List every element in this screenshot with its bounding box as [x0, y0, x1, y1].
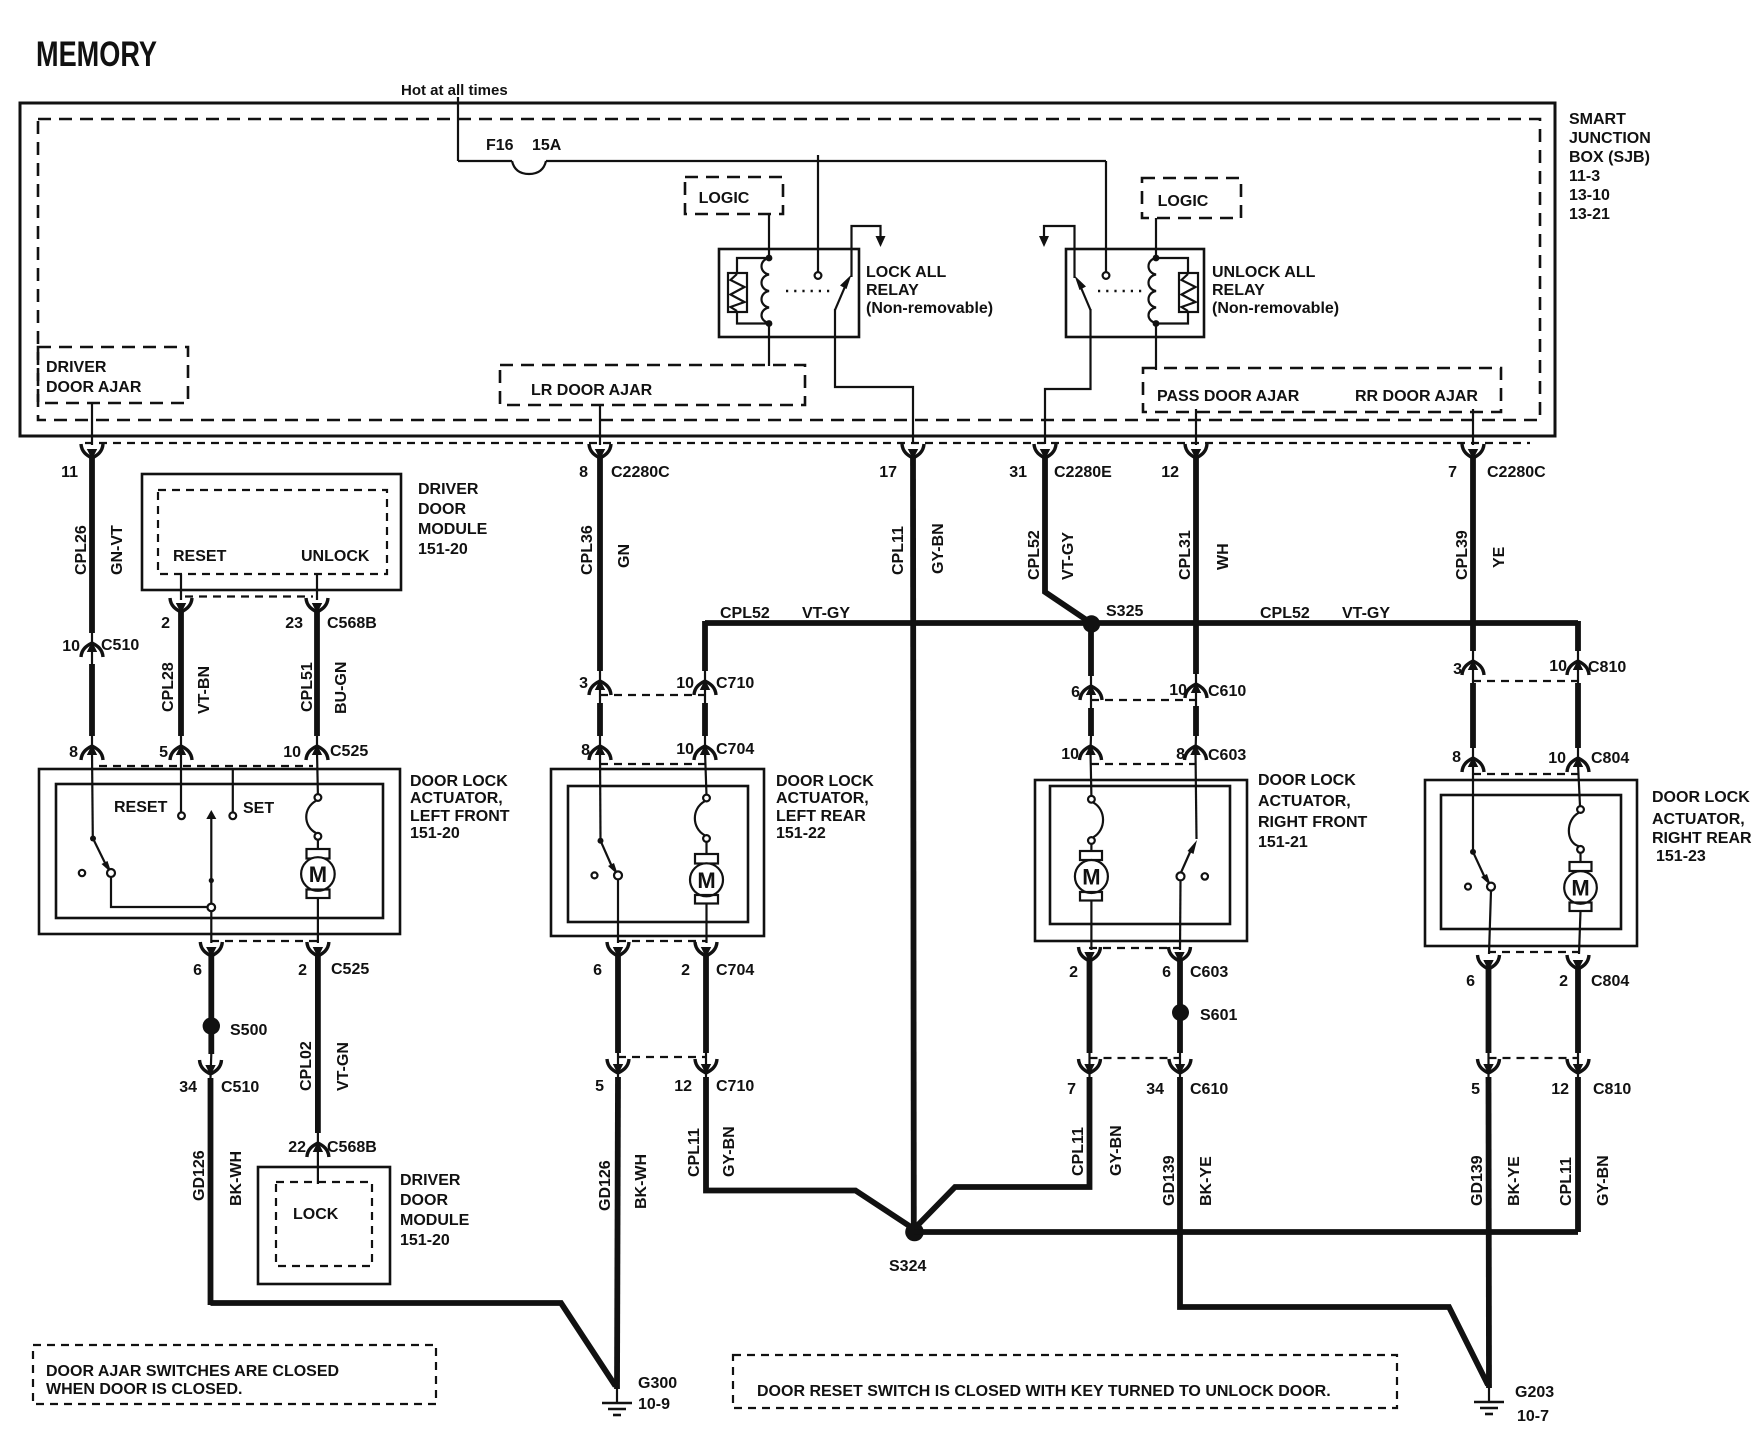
svg-text:6: 6 — [1071, 684, 1080, 701]
wire C610 to C603 left — [1088, 708, 1094, 752]
connector C810 pin 12 — [1551, 1059, 1631, 1098]
svg-text:G300: G300 — [638, 1375, 677, 1392]
svg-text:BOX (SJB): BOX (SJB) — [1569, 149, 1650, 166]
UNLOCK relay switch blade — [1075, 276, 1091, 311]
svg-text:CPL11: CPL11 — [1070, 1127, 1087, 1176]
title MEMORY — [36, 35, 157, 74]
label UNLOCK ALL RELAY (Non-removable) — [1212, 264, 1339, 317]
PASS and RR DOOR AJAR box — [1143, 368, 1501, 412]
svg-text:UNLOCK: UNLOCK — [301, 548, 370, 565]
connector arrow pin 11 — [61, 444, 103, 481]
svg-text:SET: SET — [243, 800, 274, 817]
svg-text:C810: C810 — [1593, 1081, 1631, 1098]
wire GD139 BK-YE (RR) to G203 — [1469, 1077, 1523, 1388]
connector C525 pin 5 — [159, 744, 192, 761]
wire C610 to C603 right — [1193, 706, 1199, 752]
wire LOCK relay coil to LR DOOR AJAR — [768, 324, 770, 367]
svg-text:C610: C610 — [1208, 683, 1246, 700]
connector C510 pin 10 — [62, 637, 139, 657]
wire LR switch output — [617, 879, 619, 943]
svg-text:7: 7 — [1448, 464, 1457, 481]
connector C610 pin 7 — [1067, 1059, 1100, 1098]
wire fuse bus to UNLOCK relay common — [1105, 161, 1107, 272]
svg-text:GD126: GD126 — [191, 1150, 208, 1201]
svg-text:C610: C610 — [1190, 1081, 1228, 1098]
wire pin 10 to LR motor — [705, 752, 707, 795]
terminal RESET contact — [178, 812, 185, 819]
ground G203 — [1474, 1384, 1554, 1425]
wire RF pin 2 to C610 pin 7 — [1087, 961, 1093, 1077]
connector C810 pin 3 — [1453, 660, 1484, 679]
wire LR pin 2 to C710 pin 12 — [703, 956, 709, 1077]
svg-text:C603: C603 — [1190, 964, 1228, 981]
connector arrow pin 31 C2280E — [1009, 444, 1112, 481]
svg-text:GD139: GD139 — [1161, 1155, 1178, 1206]
connector C610 lower dashed — [1090, 1057, 1181, 1059]
svg-text:DRIVER: DRIVER — [400, 1172, 461, 1189]
connector C710 pin 5 — [595, 1059, 629, 1095]
connector arrow pin 12 — [1161, 444, 1207, 481]
wire RR pin 2 to C810 pin 12 — [1575, 969, 1581, 1077]
connector arrow LR pin 2 C704 — [681, 942, 754, 979]
svg-text:BU-GN: BU-GN — [333, 662, 350, 714]
connector arrow pin 8 C2280C — [579, 444, 670, 481]
svg-text:RIGHT REAR: RIGHT REAR — [1652, 830, 1752, 847]
connector C510 pin 34 — [179, 1060, 259, 1096]
connector arrow RR pin 2 C804 — [1559, 955, 1629, 990]
svg-text:VT-GY: VT-GY — [802, 605, 850, 622]
connector C525 pin 8 — [69, 744, 103, 761]
svg-text:ACTUATOR,: ACTUATOR, — [1652, 811, 1745, 828]
wire CPL26 GN-VT pin 11 to C510 — [73, 456, 126, 664]
LOGIC box (unlock side) — [1142, 178, 1241, 218]
wire pin 10 to RR motor — [1578, 764, 1580, 806]
motor M RF — [1075, 796, 1108, 950]
svg-text:DOOR LOCK: DOOR LOCK — [1258, 772, 1356, 789]
LF plunger — [206, 810, 216, 911]
svg-text:LOGIC: LOGIC — [1158, 193, 1209, 210]
connector arrow LF pin 2 C525 — [298, 942, 369, 979]
LOCK relay switch blade — [835, 275, 852, 311]
label Hot at all times — [401, 82, 508, 99]
svg-text:SMART: SMART — [1569, 111, 1626, 128]
wire CPL02 VT-GN motor to LOCK — [298, 956, 352, 1148]
driver door module U1 box — [142, 474, 401, 590]
fuse F16 15A — [458, 137, 1106, 174]
svg-text:(Non-removable): (Non-removable) — [866, 300, 993, 317]
svg-text:(Non-removable): (Non-removable) — [1212, 300, 1339, 317]
svg-text:LOCK ALL: LOCK ALL — [866, 264, 947, 281]
connector arrow RR pin 6 — [1466, 955, 1499, 990]
door lock actuator left front box — [39, 769, 400, 934]
svg-text:RR DOOR AJAR: RR DOOR AJAR — [1355, 388, 1478, 405]
svg-text:10: 10 — [1548, 750, 1566, 767]
svg-text:JUNCTION: JUNCTION — [1569, 130, 1651, 147]
wire bus corner to C810 pin 10 — [1575, 621, 1581, 683]
LOCK relay linkage — [786, 290, 831, 293]
svg-text:YE: YE — [1491, 546, 1508, 568]
svg-text:2: 2 — [298, 962, 307, 979]
svg-text:LR DOOR AJAR: LR DOOR AJAR — [531, 382, 653, 399]
svg-text:BK-WH: BK-WH — [228, 1151, 245, 1206]
wire CPL11 GY-BN (RF) to S324 — [914, 1077, 1125, 1229]
splice S325 — [1083, 603, 1144, 633]
wire pin 8 stub from LR DOOR AJAR — [599, 405, 601, 445]
motor M LR — [690, 795, 723, 943]
wire S324 ground bus — [914, 1229, 1578, 1235]
wire pin 8 into RF switch — [1196, 752, 1197, 839]
svg-text:RELAY: RELAY — [866, 282, 919, 299]
SJB inner dashed boundary — [38, 119, 1540, 420]
svg-text:151-23: 151-23 — [1656, 848, 1706, 865]
connector C710 boundary dashed — [600, 694, 705, 696]
terminal UNLOCK relay common contact — [1103, 272, 1110, 279]
svg-text:C810: C810 — [1588, 659, 1626, 676]
svg-text:151-20: 151-20 — [410, 825, 460, 842]
svg-text:12: 12 — [674, 1078, 692, 1095]
label DOOR LOCK ACTUATOR RIGHT REAR 151-23 — [1652, 789, 1752, 865]
wire LF pin 6 to S500 — [208, 956, 214, 1020]
svg-text:RELAY: RELAY — [1212, 282, 1265, 299]
svg-text:F16: F16 — [486, 137, 514, 154]
wire pin 31 CPL52 VT-GY to S325 — [1026, 456, 1088, 621]
svg-text:10-7: 10-7 — [1517, 1408, 1549, 1425]
LOCK relay suppression resistor — [728, 258, 766, 324]
wire S500 to C510 pin 34 — [208, 1032, 215, 1078]
connector C603 pin 10 — [1061, 745, 1101, 764]
LOCK relay coil — [762, 255, 773, 327]
svg-text:CPL02: CPL02 — [298, 1041, 315, 1091]
connector C568B boundary dashed — [185, 595, 313, 597]
svg-text:10: 10 — [676, 741, 694, 758]
svg-text:2: 2 — [1069, 964, 1078, 981]
connector C610 pin 6 — [1071, 684, 1102, 701]
svg-text:34: 34 — [1146, 1081, 1164, 1098]
connector C804 dashed lower — [1488, 951, 1578, 953]
wire CPL52 VT-GY bus — [705, 605, 1578, 623]
svg-text:DOOR AJAR: DOOR AJAR — [46, 379, 142, 396]
svg-text:CPL52: CPL52 — [720, 605, 770, 622]
wire GN-VT C510 to actuator pin 8 — [89, 664, 95, 752]
wire RF switch output — [1179, 880, 1182, 950]
relay K1 LOCK ALL RELAY box — [719, 249, 859, 337]
connector arrow pin 23 C568B — [285, 598, 377, 632]
svg-text:UNLOCK ALL: UNLOCK ALL — [1212, 264, 1316, 281]
svg-text:151-20: 151-20 — [418, 541, 468, 558]
driver door module LOCK box — [258, 1167, 390, 1284]
svg-text:DOOR LOCK: DOOR LOCK — [410, 773, 508, 790]
svg-text:MEMORY: MEMORY — [36, 35, 157, 74]
wire S601 to C610 pin 34 — [1177, 1017, 1183, 1077]
svg-text:VT-GY: VT-GY — [1060, 532, 1077, 580]
motor M RR — [1564, 806, 1597, 954]
svg-text:5: 5 — [1471, 1081, 1480, 1098]
svg-text:C510: C510 — [221, 1079, 259, 1096]
svg-text:ACTUATOR,: ACTUATOR, — [410, 790, 503, 807]
RF door lock switch — [1177, 840, 1209, 880]
svg-text:C603: C603 — [1208, 747, 1246, 764]
svg-text:6: 6 — [1162, 964, 1171, 981]
connector C804 pin 8 — [1452, 749, 1484, 772]
svg-text:DOOR: DOOR — [400, 1192, 448, 1209]
wire CPL36 GN pin 8 — [579, 456, 633, 703]
svg-text:DOOR LOCK: DOOR LOCK — [1652, 789, 1750, 806]
svg-text:M: M — [1082, 865, 1100, 890]
connector arrow LR pin 6 — [593, 942, 629, 979]
svg-text:C710: C710 — [716, 675, 754, 692]
connector C603 dashed lower — [1089, 947, 1180, 949]
connector C525 dashed boundary — [99, 765, 313, 767]
svg-text:C568B: C568B — [327, 615, 377, 632]
ground G300 — [602, 1375, 677, 1415]
wire CPL28 VT-BN — [160, 611, 213, 752]
wire fuse bus to LOCK relay common — [817, 155, 819, 272]
wire pin 8 into LF switch — [91, 752, 94, 838]
svg-text:ACTUATOR,: ACTUATOR, — [1258, 793, 1351, 810]
relay K2 UNLOCK ALL RELAY box — [1066, 249, 1204, 337]
wire LF switch output to plunger node — [111, 877, 208, 907]
svg-text:BK-YE: BK-YE — [1506, 1156, 1523, 1206]
svg-text:34: 34 — [179, 1079, 197, 1096]
wire into LOCK module — [317, 1148, 319, 1184]
connector arrow pin 7 C2280C — [1448, 444, 1546, 481]
svg-text:MODULE: MODULE — [418, 521, 488, 538]
svg-text:C710: C710 — [716, 1078, 754, 1095]
wire LOCK relay blade to pin 17 — [835, 309, 913, 444]
wire pin 7 stub from RR DOOR AJAR — [1472, 409, 1474, 445]
svg-text:10: 10 — [676, 675, 694, 692]
smart junction box SJB outer box — [20, 103, 1555, 436]
svg-text:6: 6 — [1466, 973, 1475, 990]
wire pin 8 into RR switch — [1472, 764, 1474, 851]
wire pin 12 stub from PASS DOOR AJAR — [1195, 409, 1197, 445]
wire pin 10 to LF motor — [316, 752, 319, 794]
connector C804 pin 10 — [1548, 750, 1629, 772]
svg-text:LEFT FRONT: LEFT FRONT — [410, 808, 510, 825]
wire module UNLOCK output — [316, 574, 318, 600]
connector C610 boundary dashed — [1091, 699, 1196, 701]
connector C810 boundary dashed — [1473, 680, 1578, 682]
svg-text:DRIVER: DRIVER — [46, 359, 107, 376]
svg-text:WHEN DOOR IS CLOSED.: WHEN DOOR IS CLOSED. — [46, 1381, 242, 1398]
RR door lock switch — [1465, 849, 1495, 891]
svg-text:GY-BN: GY-BN — [721, 1126, 738, 1177]
svg-text:C2280C: C2280C — [611, 464, 670, 481]
label DRIVER DOOR MODULE 151-20 (lock) — [400, 1172, 470, 1249]
svg-text:8: 8 — [579, 464, 588, 481]
wire LF common down and out — [210, 911, 212, 943]
note door ajar switches — [33, 1345, 436, 1404]
svg-text:DOOR RESET SWITCH IS CLOSED WI: DOOR RESET SWITCH IS CLOSED WITH KEY TUR… — [757, 1383, 1331, 1400]
wire UNLOCK relay blade to pin 31 — [1045, 309, 1091, 444]
svg-text:VT-GN: VT-GN — [335, 1042, 352, 1091]
svg-text:GD126: GD126 — [597, 1160, 614, 1211]
wire LR pin 6 to C710 pin 5 — [615, 956, 621, 1077]
wire pin 11 stub from DRIVER DOOR AJAR — [91, 403, 93, 445]
svg-text:WH: WH — [1215, 543, 1232, 570]
svg-text:10-9: 10-9 — [638, 1396, 670, 1413]
driver door module inner dashed — [158, 490, 387, 574]
LOCK relay output hook with arrow — [852, 226, 886, 277]
connector C610 pin 10 — [1169, 682, 1246, 700]
svg-text:11-3: 11-3 — [1569, 168, 1600, 185]
svg-text:17: 17 — [879, 464, 897, 481]
connector C710 lower dashed — [618, 1056, 706, 1058]
LF labels RESET SET — [114, 799, 274, 817]
LR door lock switch — [592, 838, 623, 880]
svg-text:2: 2 — [681, 962, 690, 979]
wire pin 7 CPL39 YE — [1454, 456, 1508, 683]
svg-text:C804: C804 — [1591, 750, 1629, 767]
label DRIVER DOOR MODULE 151-20 — [418, 481, 488, 558]
connector C610 pin 34 — [1146, 1059, 1228, 1098]
wire RF pin 6 to S601 — [1177, 961, 1183, 1008]
wire hot feed to fuse — [457, 97, 459, 161]
wire S325 to C610 pin 6 — [1088, 626, 1094, 708]
wire pin 8 into LR switch — [599, 752, 602, 840]
connector C710 pin 3 — [579, 675, 611, 695]
connector C804 boundary dashed — [1473, 773, 1578, 775]
label DOOR LOCK ACTUATOR RIGHT FRONT 151-21 — [1258, 772, 1368, 851]
note door reset switch — [733, 1355, 1397, 1408]
LR DOOR AJAR box — [500, 365, 805, 405]
connector C704 dashed lower — [618, 940, 706, 942]
svg-text:CPL31: CPL31 — [1177, 530, 1194, 580]
wire RR switch output — [1489, 891, 1491, 954]
connector arrow pin 2 — [161, 598, 192, 632]
connector C810 pin 5 — [1471, 1059, 1499, 1098]
svg-text:C804: C804 — [1591, 973, 1629, 990]
svg-text:3: 3 — [1453, 661, 1462, 678]
wire pin 10 to RF motor — [1089, 752, 1092, 796]
svg-text:5: 5 — [159, 744, 168, 761]
wire C710 to C704 left — [597, 703, 603, 752]
svg-text:RESET: RESET — [173, 548, 227, 565]
svg-text:151-21: 151-21 — [1258, 834, 1308, 851]
svg-text:CPL36: CPL36 — [579, 525, 596, 575]
door lock actuator left rear box — [551, 769, 764, 936]
wire CPL11 GY-BN (LR) to S324 — [686, 1077, 914, 1229]
svg-text:LOCK: LOCK — [293, 1206, 339, 1223]
svg-text:8: 8 — [581, 742, 590, 759]
connector C704 boundary dashed — [600, 763, 705, 765]
svg-text:C568B: C568B — [327, 1139, 377, 1156]
svg-text:C525: C525 — [330, 743, 368, 760]
svg-text:10: 10 — [1061, 746, 1079, 763]
svg-text:GN: GN — [616, 544, 633, 568]
svg-text:GY-BN: GY-BN — [1595, 1155, 1612, 1206]
svg-text:CPL11: CPL11 — [890, 526, 907, 575]
svg-text:GY-BN: GY-BN — [1108, 1125, 1125, 1176]
connector arrow LF pin 6 — [193, 942, 222, 979]
connector arrow pin 17 — [879, 444, 924, 481]
svg-text:GY-BN: GY-BN — [930, 523, 947, 574]
svg-text:PASS DOOR AJAR: PASS DOOR AJAR — [1157, 388, 1300, 405]
svg-text:8: 8 — [1176, 746, 1185, 763]
wire pin 17 CPL11 GY-BN to S324 — [890, 456, 947, 1229]
svg-text:31: 31 — [1009, 464, 1027, 481]
svg-text:12: 12 — [1161, 464, 1179, 481]
svg-text:RIGHT FRONT: RIGHT FRONT — [1258, 814, 1368, 831]
DRIVER DOOR AJAR box — [38, 347, 188, 403]
svg-text:2: 2 — [161, 615, 170, 632]
terminal SET contact and stub — [229, 769, 236, 819]
splice S500 — [203, 1017, 268, 1039]
UNLOCK relay output hook with arrow — [1039, 226, 1075, 278]
wire C810 to C804 right — [1575, 683, 1581, 764]
wire module RESET output — [180, 574, 182, 600]
svg-text:MODULE: MODULE — [400, 1212, 470, 1229]
svg-text:DOOR: DOOR — [418, 501, 466, 518]
svg-text:S325: S325 — [1106, 603, 1143, 620]
motor M LF — [301, 794, 335, 943]
svg-text:10: 10 — [283, 744, 301, 761]
connector arrow RF pin 2 — [1069, 947, 1100, 981]
wire C710 to C704 right — [702, 703, 708, 752]
svg-text:M: M — [697, 868, 715, 893]
svg-text:M: M — [1571, 876, 1589, 901]
svg-text:C704: C704 — [716, 962, 754, 979]
connector C525 pin 10 — [283, 743, 368, 761]
connector C2280 dashed boundary row — [85, 442, 1530, 444]
svg-text:CPL11: CPL11 — [686, 1128, 703, 1177]
svg-text:G203: G203 — [1515, 1384, 1554, 1401]
connector C810 lower dashed — [1489, 1057, 1579, 1059]
svg-text:DRIVER: DRIVER — [418, 481, 479, 498]
wire GD126 BK-WH (LF) to G300 — [191, 1078, 616, 1386]
svg-text:VT-GY: VT-GY — [1342, 605, 1390, 622]
svg-text:10: 10 — [1169, 682, 1187, 699]
wire bus corner to C710 pin 10 — [702, 621, 708, 703]
svg-text:151-22: 151-22 — [776, 825, 826, 842]
wire RR pin 6 to C810 pin 5 — [1486, 969, 1492, 1077]
svg-text:CPL52: CPL52 — [1026, 530, 1043, 580]
UNLOCK relay coil — [1149, 255, 1160, 327]
wire pin 12 CPL31 WH — [1177, 456, 1232, 706]
svg-text:LEFT REAR: LEFT REAR — [776, 808, 866, 825]
svg-text:8: 8 — [69, 744, 78, 761]
label DOOR LOCK ACTUATOR LEFT FRONT 151-20 — [410, 773, 510, 842]
svg-text:22: 22 — [288, 1139, 306, 1156]
svg-text:23: 23 — [285, 615, 303, 632]
svg-text:CPL11: CPL11 — [1558, 1157, 1575, 1206]
svg-text:2: 2 — [1559, 973, 1568, 990]
svg-text:C510: C510 — [101, 637, 139, 654]
connector arrow RF pin 6 C603 — [1162, 947, 1228, 981]
svg-text:DOOR AJAR SWITCHES ARE CLOSED: DOOR AJAR SWITCHES ARE CLOSED — [46, 1363, 339, 1380]
svg-text:RESET: RESET — [114, 799, 168, 816]
connector C525 dashed lower — [211, 940, 318, 942]
svg-text:CPL52: CPL52 — [1260, 605, 1310, 622]
svg-text:BK-WH: BK-WH — [633, 1154, 650, 1209]
wire GD139 BK-YE (RF) to G203 — [1161, 1077, 1488, 1385]
connector C603 boundary dashed — [1091, 763, 1196, 765]
svg-text:10: 10 — [62, 638, 80, 655]
connector C704 pin 10 — [676, 741, 754, 760]
svg-text:C704: C704 — [716, 741, 754, 758]
connector C568B pin 22 — [288, 1139, 377, 1157]
svg-text:GD139: GD139 — [1469, 1155, 1486, 1206]
LF reset switch — [79, 836, 115, 878]
wire GD126 BK-WH (LR) to G300 — [597, 1077, 650, 1389]
terminal LOCK relay common contact — [815, 272, 822, 279]
wire C810 to C804 left — [1470, 683, 1476, 764]
label DOOR LOCK ACTUATOR LEFT REAR 151-22 — [776, 773, 874, 842]
svg-text:BK-YE: BK-YE — [1198, 1156, 1215, 1206]
wire CPL11 GY-BN (RR) to S324 bus — [1558, 1077, 1612, 1232]
svg-text:CPL51: CPL51 — [299, 662, 316, 712]
svg-text:6: 6 — [593, 962, 602, 979]
